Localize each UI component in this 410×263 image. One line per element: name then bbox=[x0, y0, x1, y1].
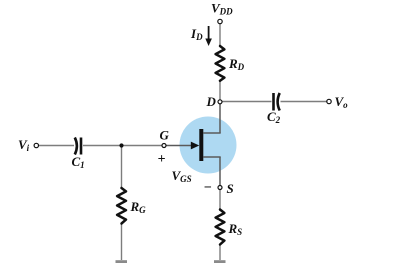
wire C1 to junction to node G bbox=[83, 145, 162, 147]
wire node D down to transistor drain bbox=[219, 104, 221, 134]
svg-text:C2: C2 bbox=[267, 109, 281, 125]
wire node S to RS bbox=[219, 190, 221, 212]
wire node G to gate arrow bbox=[166, 145, 192, 147]
svg-text:RD: RD bbox=[228, 56, 245, 72]
junction bbox=[119, 143, 123, 147]
wire Vi to C1 bbox=[39, 145, 75, 147]
svg-text:−: − bbox=[204, 181, 212, 196]
wire VDD to RD bbox=[219, 24, 221, 47]
ground under RS bbox=[214, 260, 226, 263]
svg-text:RG: RG bbox=[130, 199, 147, 215]
resistor RG bbox=[117, 188, 126, 224]
wire transistor source down to node S bbox=[219, 157, 221, 186]
svg-text:C1: C1 bbox=[72, 154, 85, 170]
capacitor C1 bbox=[75, 138, 81, 155]
svg-text:+: + bbox=[158, 152, 166, 167]
wire junction down to RG bbox=[121, 146, 123, 190]
wire RS to ground bbox=[219, 244, 221, 260]
node S bbox=[218, 186, 222, 190]
svg-text:ID: ID bbox=[190, 26, 203, 42]
wire RD to node D bbox=[219, 80, 221, 100]
wire C2 to Vo bbox=[281, 101, 328, 103]
node G bbox=[162, 144, 166, 148]
svg-text:VDD: VDD bbox=[211, 1, 233, 17]
transistor Q1 JFET bbox=[191, 129, 221, 161]
svg-text:D: D bbox=[206, 94, 217, 109]
wire RG to ground bbox=[121, 223, 123, 260]
node D bbox=[218, 100, 222, 104]
ground under RG bbox=[116, 260, 128, 263]
wire node D to C2 bbox=[222, 101, 272, 103]
svg-text:G: G bbox=[160, 128, 170, 143]
svg-text:Vi: Vi bbox=[18, 137, 30, 153]
resistor RS bbox=[216, 210, 225, 245]
svg-text:S: S bbox=[227, 181, 234, 196]
svg-text:RS: RS bbox=[228, 221, 243, 237]
terminal Vo bbox=[327, 99, 331, 103]
transistor highlight circle bbox=[180, 117, 237, 174]
terminal Vi bbox=[34, 143, 38, 147]
current arrow ID bbox=[205, 26, 212, 46]
terminal VDD bbox=[218, 19, 222, 23]
capacitor C2 bbox=[274, 93, 280, 111]
svg-text:VGS: VGS bbox=[172, 168, 192, 184]
svg-text:Vo: Vo bbox=[335, 94, 349, 110]
resistor RD bbox=[216, 46, 225, 81]
